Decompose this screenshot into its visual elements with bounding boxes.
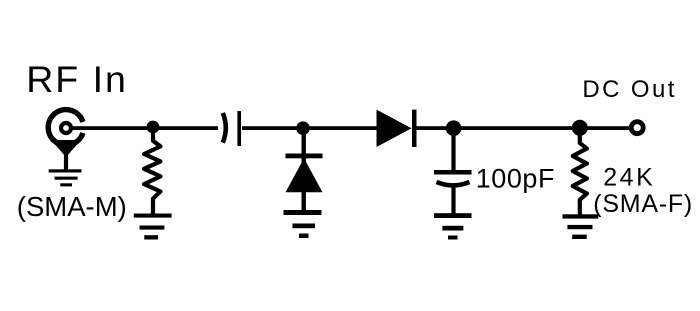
- svg-text:24K: 24K: [603, 164, 655, 192]
- svg-text:(SMA-F): (SMA-F): [593, 190, 693, 218]
- svg-text:RF In: RF In: [26, 58, 128, 100]
- svg-text:DC Out: DC Out: [582, 76, 676, 103]
- svg-text:(SMA-M): (SMA-M): [17, 191, 127, 222]
- svg-text:100pF: 100pF: [476, 164, 555, 194]
